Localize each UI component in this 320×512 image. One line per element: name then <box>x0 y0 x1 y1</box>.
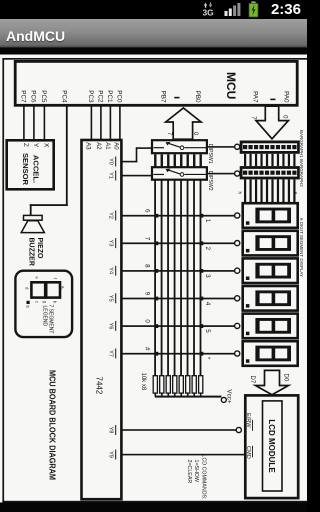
svg-text:0: 0 <box>144 319 151 323</box>
7442 output Y3 label <box>115 238 116 248</box>
DIPSW2 switch symbol <box>154 169 207 177</box>
svg-text:Y6: Y6 <box>107 322 113 329</box>
digit select wire Y5 <box>121 298 234 300</box>
outer border right edge <box>2 501 307 503</box>
DIPSW1 switch symbol <box>154 142 207 150</box>
svg-text:Y5: Y5 <box>107 295 113 302</box>
digit select wire Y4 <box>121 270 234 272</box>
7-segment digit module 3 <box>243 258 298 283</box>
digit select node circle 2 <box>235 241 240 246</box>
svg-text:7442: 7442 <box>95 377 104 395</box>
wire 7442 Y8 to LCD E <box>121 429 236 431</box>
D0-D7 bus arrow to LCD <box>256 370 289 394</box>
PB0..PB7 range tick <box>174 97 179 99</box>
bargraph1-bargraph2 pins <box>244 154 295 166</box>
svg-text:E/RW: E/RW <box>245 413 251 428</box>
7442 output Y4 label <box>115 266 116 276</box>
7442 decoder block <box>82 140 122 499</box>
keypad junction dots wire Y4 <box>200 269 204 273</box>
segment bus wire 7 <box>161 179 163 375</box>
pins between DIPSW1 and DIPSW2 <box>154 154 202 167</box>
wire 7442 Y1 to DIPSW2 <box>121 175 152 177</box>
svg-text:Y7: Y7 <box>107 350 113 357</box>
segment bus wire 2 <box>193 179 195 375</box>
svg-text:PC2: PC2 <box>97 90 104 103</box>
bargraph1 LED module <box>240 141 300 154</box>
legend digit 8 <box>46 282 60 297</box>
svg-text:PC6: PC6 <box>30 90 37 103</box>
segment bus wire 6 <box>167 179 169 375</box>
bargraph2 LED module <box>240 166 300 179</box>
svg-text:MCU BOARD BLOCK DIAGRAM: MCU BOARD BLOCK DIAGRAM <box>48 370 58 480</box>
Vcc common wire <box>155 396 222 398</box>
wire PC6 to accel sensor <box>33 105 35 140</box>
battery icon <box>248 1 259 18</box>
7442 output Y9 label <box>115 450 116 460</box>
piezo buzzer plate <box>24 215 43 220</box>
svg-text:8: 8 <box>144 264 151 268</box>
resistor network 10k x8 <box>153 376 203 397</box>
top letterbox black bar <box>0 48 307 55</box>
7442 output Y1 label <box>115 171 116 181</box>
7-segment digit module 6 <box>243 341 298 366</box>
wire DIPSW2 to bargraph2 <box>208 173 236 175</box>
outer border left edge <box>2 58 307 60</box>
7 segment legend box <box>15 271 72 337</box>
wire 7442 Y9 to LCD CMD <box>121 454 245 456</box>
keypad junction dots wire Y2 <box>200 214 204 218</box>
svg-text:9: 9 <box>144 292 151 296</box>
svg-text:D0: D0 <box>283 374 289 382</box>
keypad junction dots wire Y7 <box>200 352 204 356</box>
svg-text:A2: A2 <box>95 142 101 150</box>
svg-text:PA7: PA7 <box>252 91 259 103</box>
LCD module block <box>245 395 298 498</box>
svg-text:h: h <box>237 192 242 195</box>
DIPSW1 block <box>152 140 207 153</box>
svg-text:2: 2 <box>204 247 211 251</box>
svg-text:PC3: PC3 <box>87 90 94 103</box>
MCU U1 block <box>15 61 297 105</box>
7442 output Y5 label <box>115 293 116 303</box>
legend decimal point h <box>27 301 30 304</box>
svg-text:BARGRAPH1 BARGRAPH2: BARGRAPH1 BARGRAPH2 <box>299 130 304 187</box>
7-segment digit module 5 <box>243 314 298 339</box>
digit select node circle 6 <box>235 351 240 356</box>
keypad junction dots wire Y3 <box>200 241 204 245</box>
digit select wire Y2 <box>121 215 234 217</box>
wire PC3 to 7442 A3 <box>91 105 93 140</box>
svg-text:Y4: Y4 <box>107 267 113 274</box>
3G data icon <box>201 2 216 17</box>
segment bus wire 3 <box>187 179 189 375</box>
7442 output Y8 label <box>115 425 116 435</box>
svg-text:Y8: Y8 <box>107 427 113 434</box>
7-segment digit module 4 <box>243 286 298 311</box>
7-segment digit module 2 <box>243 231 298 256</box>
svg-text:PA0: PA0 <box>283 91 290 103</box>
svg-text:PB0: PB0 <box>194 91 201 103</box>
signal bars icon <box>224 2 242 17</box>
svg-text:LCD COMMANDS:: LCD COMMANDS: <box>201 455 207 500</box>
svg-text:Y2: Y2 <box>107 212 113 219</box>
svg-text:BUZZER: BUZZER <box>27 238 34 266</box>
svg-text:CMD: CMD <box>245 446 251 459</box>
svg-text:PB7: PB7 <box>160 91 167 103</box>
LCD E node circle <box>236 427 241 432</box>
svg-text:ACCEL.: ACCEL. <box>31 155 40 183</box>
digit select wire Y3 <box>121 242 234 244</box>
svg-text:2=CLEAR: 2=CLEAR <box>186 460 192 484</box>
svg-text:PC0: PC0 <box>116 90 123 103</box>
svg-text:5: 5 <box>204 329 211 333</box>
wire DIPSW1 to bargraph1 <box>208 146 236 148</box>
svg-text:7: 7 <box>144 237 151 241</box>
svg-text:1=SHOW: 1=SHOW <box>193 460 199 483</box>
svg-text:A1: A1 <box>104 142 110 150</box>
svg-text:1: 1 <box>204 219 211 223</box>
PA0-PA7 bus arrow <box>256 106 288 139</box>
svg-text:SENSOR: SENSOR <box>21 153 30 186</box>
accel sensor block <box>7 140 54 189</box>
svg-text:6 DIGIT SEGMENT DISPLAY: 6 DIGIT SEGMENT DISPLAY <box>299 218 304 277</box>
svg-text:Vcc+: Vcc+ <box>226 389 233 403</box>
7442 output Y2 label <box>115 211 116 221</box>
svg-text:PC7: PC7 <box>20 90 27 103</box>
svg-text:a: a <box>294 192 299 195</box>
svg-text:LCD MODULE: LCD MODULE <box>267 419 276 473</box>
svg-text:A3: A3 <box>85 142 91 150</box>
7-segment digit module 1 <box>243 203 298 228</box>
wire PC1 to 7442 A1 <box>110 105 112 140</box>
keypad junction dots wire Y5 <box>200 297 204 301</box>
7442 output Y6 label <box>115 321 116 331</box>
svg-text:MCU: MCU <box>224 72 238 99</box>
svg-text:#: # <box>144 347 151 351</box>
svg-text:D7: D7 <box>249 376 255 384</box>
wire PC2 to 7442 A2 <box>100 105 102 140</box>
legend segment letters <box>25 276 66 308</box>
keypad junction dots wire Y6 <box>200 324 204 328</box>
segment bus wire 8 <box>154 179 156 375</box>
segment bus wire 4 <box>180 179 182 375</box>
LCD screen inner rect <box>263 401 283 491</box>
bottom letterbox black bar <box>0 503 307 512</box>
PA0..PA7 range tick <box>270 99 275 101</box>
wire 7442 Y0 to DIPSW1 <box>121 161 137 163</box>
wire PC7 to accel sensor <box>23 105 25 140</box>
digit select wire Y6 <box>121 325 234 327</box>
Vcc node circle <box>221 397 226 402</box>
wire PC4 to piezo buzzer <box>66 105 68 206</box>
svg-text:3G: 3G <box>203 7 214 17</box>
node circle bargraph2 <box>235 171 240 176</box>
node circle bargraph1 <box>235 144 240 149</box>
digit select wire Y7 <box>121 353 234 355</box>
svg-text:4: 4 <box>204 302 211 306</box>
wire PC0 to 7442 A0 <box>119 105 121 140</box>
segment bus wire 1 <box>200 179 202 375</box>
svg-text:PC4: PC4 <box>61 90 68 103</box>
7442 output Y7 label <box>115 349 116 359</box>
svg-text:PIEZO: PIEZO <box>36 238 43 260</box>
DIPSW2 block <box>152 167 207 180</box>
svg-text:PC1: PC1 <box>106 90 113 103</box>
svg-text:10k x8: 10k x8 <box>140 373 146 391</box>
bargraph2-display pins <box>244 179 295 202</box>
svg-text:6: 6 <box>144 209 151 213</box>
outer border bottom edge <box>2 58 4 503</box>
svg-text:PC5: PC5 <box>40 90 47 103</box>
wire PC5 to accel sensor <box>44 105 46 140</box>
svg-text:Z: Z <box>22 143 29 147</box>
svg-text:3: 3 <box>204 274 211 278</box>
PB0-PB7 bus arrow <box>166 108 201 139</box>
digit select node circle 5 <box>235 323 240 328</box>
digit select node circle 3 <box>235 268 240 273</box>
piezo buzzer horn <box>21 221 44 233</box>
svg-text:Y0: Y0 <box>107 158 113 165</box>
svg-text:Y1: Y1 <box>107 172 113 179</box>
svg-text:Y3: Y3 <box>107 240 113 247</box>
7442 output Y0 label <box>115 157 116 167</box>
svg-text:A0: A0 <box>113 142 119 150</box>
digit select node circle 4 <box>235 296 240 301</box>
svg-text:a.: a. <box>61 286 66 290</box>
digit select node circle 1 <box>235 213 240 218</box>
svg-text:Y9: Y9 <box>107 451 113 458</box>
svg-text:LEGEND: LEGEND <box>42 306 48 327</box>
segment bus wire 5 <box>174 179 176 375</box>
